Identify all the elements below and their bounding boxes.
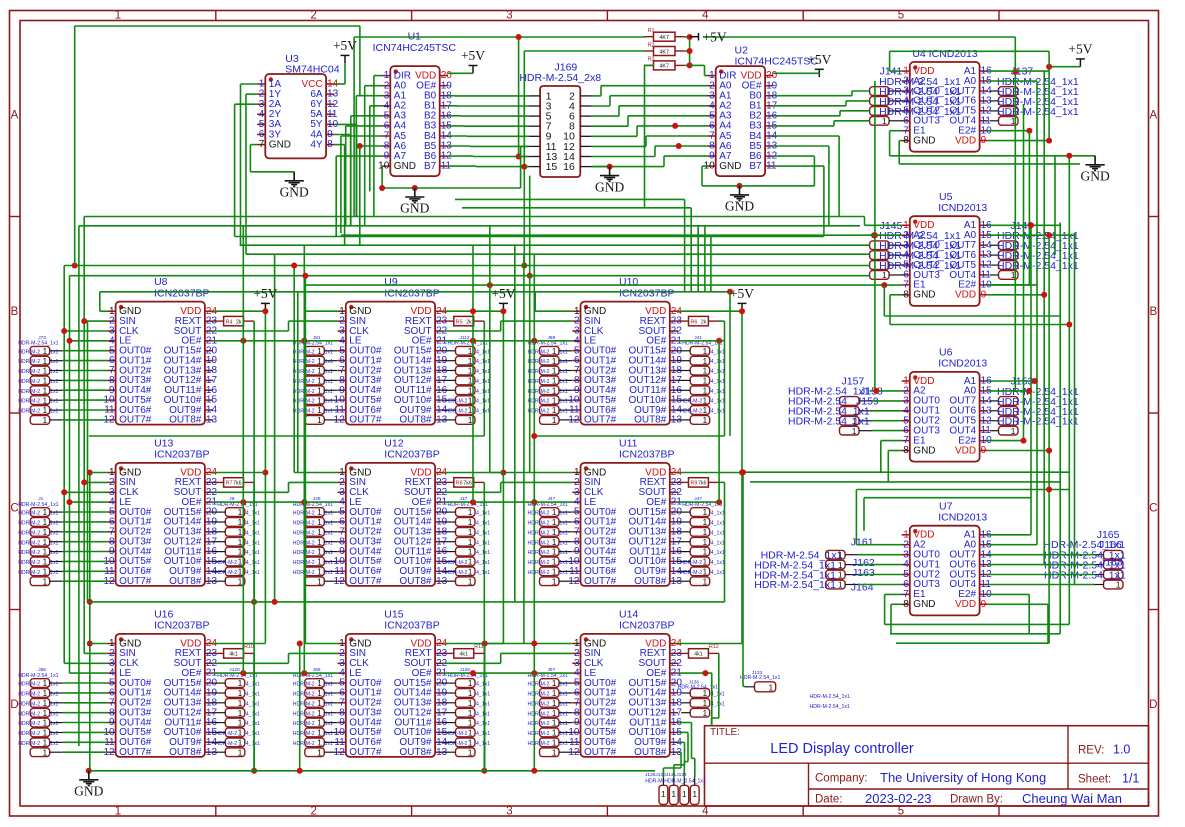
junction bbox=[881, 282, 887, 288]
junction bbox=[727, 289, 733, 295]
wire bbox=[743, 685, 745, 687]
wire bbox=[63, 419, 108, 421]
wire bbox=[455, 95, 529, 97]
junction bbox=[531, 433, 537, 439]
wire bbox=[662, 768, 664, 777]
svg-text:4_1x1: 4_1x1 bbox=[246, 560, 260, 566]
wire bbox=[855, 490, 857, 545]
junction bbox=[1026, 388, 1032, 394]
IC U3 SM74HC04 bbox=[257, 53, 340, 158]
wire bbox=[883, 285, 885, 316]
wire bbox=[818, 73, 820, 74]
wire bbox=[264, 311, 266, 643]
svg-text:2023-02-23: 2023-02-23 bbox=[865, 791, 932, 806]
wire bbox=[845, 101, 847, 106]
junction bbox=[262, 308, 268, 314]
svg-text:1: 1 bbox=[238, 738, 243, 748]
svg-text:1: 1 bbox=[702, 517, 707, 527]
junction bbox=[87, 641, 93, 647]
wire bbox=[90, 643, 108, 645]
wire bbox=[381, 166, 383, 188]
wire bbox=[890, 324, 1069, 326]
svg-text:+5V: +5V bbox=[491, 286, 515, 301]
svg-text:HDR-M-2: HDR-M-2 bbox=[18, 379, 40, 385]
wire bbox=[852, 90, 870, 92]
junction bbox=[716, 338, 722, 344]
svg-text:1: 1 bbox=[238, 708, 243, 718]
svg-text:_1x1: _1x1 bbox=[46, 369, 58, 375]
svg-text:HDR-M-2: HDR-M-2 bbox=[528, 379, 550, 385]
svg-text:1: 1 bbox=[702, 527, 707, 537]
svg-text:4_1x1: 4_1x1 bbox=[476, 521, 490, 527]
connectors J128.. (right of U15) bbox=[443, 667, 491, 757]
svg-text:1: 1 bbox=[317, 415, 322, 425]
svg-text:_1x1: _1x1 bbox=[46, 550, 58, 556]
wire bbox=[63, 682, 108, 684]
junction bbox=[531, 499, 537, 505]
wire bbox=[63, 409, 108, 411]
wire bbox=[988, 593, 1029, 595]
svg-text:1: 1 bbox=[238, 517, 243, 527]
svg-text:HDR-M-HDR-M_2.54_1x1: HDR-M-HDR-M_2.54_1x1 bbox=[645, 779, 706, 785]
wire bbox=[289, 652, 338, 654]
svg-text:9: 9 bbox=[981, 599, 987, 610]
wire bbox=[304, 284, 901, 286]
svg-text:HDR-M-2: HDR-M-2 bbox=[18, 399, 40, 405]
svg-text:4_1x1: 4_1x1 bbox=[246, 540, 260, 546]
wire bbox=[64, 265, 869, 267]
junction bbox=[739, 308, 745, 314]
wire bbox=[64, 330, 107, 332]
wires-done bbox=[0, 0, 1, 1]
connectors J81.. (left of U9) bbox=[293, 335, 338, 425]
resistor R8 7k6 bbox=[443, 478, 484, 487]
svg-text:2k: 2k bbox=[236, 319, 242, 325]
wire bbox=[448, 115, 461, 117]
svg-text:HDR-M-2: HDR-M-2 bbox=[528, 540, 550, 546]
wire bbox=[63, 580, 108, 582]
wire bbox=[250, 144, 257, 146]
wire bbox=[63, 389, 108, 391]
connectors J153-J156 (right of U6) bbox=[990, 376, 1079, 436]
svg-text:VDD: VDD bbox=[955, 599, 976, 610]
svg-text:1: 1 bbox=[468, 678, 473, 688]
IC U8 ICN2037BP bbox=[103, 276, 217, 426]
wire bbox=[711, 718, 713, 726]
power +5V bbox=[333, 38, 357, 63]
wire bbox=[636, 126, 638, 136]
svg-text:_1x1: _1x1 bbox=[46, 511, 58, 517]
wire bbox=[500, 482, 502, 492]
junction bbox=[672, 123, 678, 129]
svg-text:_1x1: _1x1 bbox=[46, 741, 58, 747]
svg-text:4_1x1: 4_1x1 bbox=[476, 721, 490, 727]
wire bbox=[858, 584, 902, 586]
junction bbox=[531, 641, 537, 647]
svg-text:4_1x1: 4_1x1 bbox=[711, 540, 725, 546]
svg-text:_1x1: _1x1 bbox=[556, 540, 568, 546]
svg-text:_1x1: _1x1 bbox=[321, 349, 333, 355]
connectors J9.. (right of U13) bbox=[212, 496, 260, 586]
svg-text:HDR-M-2: HDR-M-2 bbox=[293, 721, 315, 727]
resistor R4 2k bbox=[213, 316, 254, 325]
wire bbox=[592, 105, 610, 107]
svg-text:_1x1: _1x1 bbox=[46, 692, 58, 698]
svg-text:1: 1 bbox=[115, 10, 121, 22]
svg-text:HDR-M-2.54_1x1: HDR-M-2.54_1x1 bbox=[997, 106, 1079, 118]
wire bbox=[685, 50, 690, 52]
IC U12 ICN2037BP bbox=[334, 437, 448, 587]
junction bbox=[67, 338, 73, 344]
junction bbox=[470, 308, 476, 314]
svg-text:_1x1: _1x1 bbox=[556, 711, 568, 717]
svg-text:4_1x1: 4_1x1 bbox=[711, 511, 725, 517]
svg-text:_1x1: _1x1 bbox=[556, 741, 568, 747]
wire bbox=[294, 472, 337, 474]
svg-text:OUT7#: OUT7# bbox=[584, 747, 617, 758]
wire bbox=[678, 722, 692, 724]
svg-text:C: C bbox=[1149, 503, 1157, 515]
wire bbox=[718, 653, 720, 718]
wire bbox=[63, 360, 108, 362]
wire bbox=[524, 166, 528, 168]
wire bbox=[601, 85, 708, 87]
connectors J73.. (left of U8) bbox=[18, 335, 63, 425]
svg-text:R9: R9 bbox=[691, 481, 698, 487]
svg-text:HDR-M-2: HDR-M-2 bbox=[18, 560, 40, 566]
wire bbox=[341, 234, 902, 236]
svg-text:4_1x1: 4_1x1 bbox=[246, 550, 260, 556]
junction bbox=[716, 499, 722, 505]
wire bbox=[678, 472, 742, 474]
wire bbox=[245, 94, 247, 254]
wire bbox=[63, 370, 108, 372]
svg-text:13: 13 bbox=[206, 415, 218, 426]
wire bbox=[502, 311, 504, 643]
wire bbox=[592, 125, 628, 127]
svg-text:R2: R2 bbox=[648, 42, 655, 48]
svg-text:4_1x1: 4_1x1 bbox=[246, 692, 260, 698]
svg-text:1: 1 bbox=[115, 806, 121, 818]
svg-text:HDR-M-2: HDR-M-2 bbox=[18, 731, 40, 737]
wire bbox=[448, 72, 473, 74]
svg-text:HDR-M-2: HDR-M-2 bbox=[446, 399, 468, 405]
svg-text:7k6: 7k6 bbox=[463, 481, 472, 487]
wire bbox=[742, 472, 744, 686]
svg-text:HDR-M-2: HDR-M-2 bbox=[528, 511, 550, 517]
svg-text:_1x1: _1x1 bbox=[556, 560, 568, 566]
junction bbox=[379, 185, 385, 191]
junction bbox=[687, 62, 693, 68]
wire bbox=[240, 244, 870, 246]
svg-text:_1x1: _1x1 bbox=[321, 560, 333, 566]
wire bbox=[740, 185, 815, 187]
wire bbox=[684, 761, 688, 763]
connectors J165-J168 (right of U7) bbox=[1043, 529, 1125, 590]
junction bbox=[240, 499, 246, 505]
wire bbox=[443, 643, 503, 645]
wire bbox=[250, 171, 294, 173]
svg-text:1: 1 bbox=[317, 747, 322, 757]
wire bbox=[833, 121, 835, 126]
svg-text:7k6: 7k6 bbox=[698, 481, 707, 487]
junction bbox=[251, 599, 257, 605]
svg-text:4_1x1: 4_1x1 bbox=[711, 701, 725, 707]
wire bbox=[645, 136, 647, 146]
wire bbox=[448, 145, 470, 147]
svg-text:HDR-M-2: HDR-M-2 bbox=[528, 692, 550, 698]
connectors J157-J160 (left of U6) bbox=[788, 376, 883, 436]
svg-text:HDR-M-2.54_1x1: HDR-M-2.54_1x1 bbox=[879, 260, 961, 272]
junction bbox=[1026, 128, 1032, 134]
connectors J47.. (right of U11) bbox=[677, 496, 725, 586]
junction bbox=[86, 768, 92, 774]
svg-text:HDR-M-2.54_1x1: HDR-M-2.54_1x1 bbox=[810, 694, 850, 700]
wire bbox=[64, 662, 107, 664]
wire bbox=[1048, 235, 1050, 643]
wire bbox=[448, 95, 455, 97]
connectors J112.. (right of U9) bbox=[443, 335, 491, 425]
svg-text:HDR-M-2: HDR-M-2 bbox=[680, 399, 702, 405]
wire bbox=[988, 234, 1075, 236]
wire bbox=[889, 131, 891, 156]
svg-text:HDR-M-2: HDR-M-2 bbox=[293, 692, 315, 698]
wire bbox=[851, 91, 853, 96]
svg-text:OUT7#: OUT7# bbox=[119, 576, 152, 587]
svg-text:+5V: +5V bbox=[1068, 42, 1092, 57]
wire bbox=[356, 124, 358, 216]
wire bbox=[988, 450, 1049, 452]
wire bbox=[63, 350, 108, 352]
svg-text:J163: J163 bbox=[852, 567, 875, 579]
svg-text:GND: GND bbox=[400, 201, 429, 216]
svg-text:1: 1 bbox=[468, 728, 473, 738]
wire bbox=[304, 276, 306, 644]
wire bbox=[74, 26, 76, 266]
connectors J145-J148 (left of U5) bbox=[870, 220, 961, 280]
wire bbox=[523, 51, 525, 167]
svg-text:1: 1 bbox=[468, 356, 473, 366]
svg-text:R4: R4 bbox=[226, 319, 233, 325]
svg-text:4_1x1: 4_1x1 bbox=[476, 540, 490, 546]
junction bbox=[412, 185, 418, 191]
svg-text:R3: R3 bbox=[648, 57, 655, 63]
junction bbox=[61, 489, 67, 495]
wire bbox=[69, 276, 71, 673]
wire bbox=[724, 321, 726, 436]
svg-text:1: 1 bbox=[468, 507, 473, 517]
junction bbox=[1046, 64, 1052, 70]
svg-text:HDR-M-2: HDR-M-2 bbox=[528, 409, 550, 415]
svg-text:4K7: 4K7 bbox=[659, 64, 668, 70]
wire bbox=[719, 320, 725, 322]
wire bbox=[872, 400, 902, 402]
junction bbox=[470, 670, 476, 676]
IC U2 ICN74HC245TSC bbox=[704, 45, 819, 177]
wire bbox=[490, 472, 573, 474]
svg-text:1: 1 bbox=[702, 537, 707, 547]
svg-text:_1x1: _1x1 bbox=[556, 399, 568, 405]
svg-text:_1x1: _1x1 bbox=[321, 399, 333, 405]
wire bbox=[89, 473, 91, 771]
ground bbox=[74, 771, 103, 799]
wire bbox=[443, 340, 572, 342]
wire bbox=[1048, 67, 1050, 141]
wire bbox=[374, 75, 382, 77]
wire bbox=[840, 110, 870, 112]
svg-text:1: 1 bbox=[238, 537, 243, 547]
wire bbox=[898, 141, 900, 164]
wire bbox=[988, 224, 1060, 226]
svg-text:U4 ICND2013: U4 ICND2013 bbox=[912, 48, 978, 60]
wire bbox=[858, 574, 902, 576]
svg-text:1: 1 bbox=[468, 747, 473, 757]
wire bbox=[483, 482, 485, 770]
svg-text:1: 1 bbox=[468, 708, 473, 718]
svg-text:4_1x1: 4_1x1 bbox=[711, 349, 725, 355]
svg-text:4_1x1: 4_1x1 bbox=[476, 570, 490, 576]
power +5V bbox=[807, 52, 831, 77]
wire bbox=[87, 321, 89, 602]
wire bbox=[524, 50, 644, 52]
svg-text:1: 1 bbox=[238, 747, 243, 757]
svg-text:HDR-M-2: HDR-M-2 bbox=[18, 521, 40, 527]
junction bbox=[531, 670, 537, 676]
svg-text:_1x1: _1x1 bbox=[321, 741, 333, 747]
wire bbox=[858, 554, 902, 556]
svg-text:ICND2013: ICND2013 bbox=[938, 202, 987, 214]
wire bbox=[520, 146, 522, 188]
svg-text:_1x1: _1x1 bbox=[321, 550, 333, 556]
svg-text:1: 1 bbox=[838, 570, 843, 580]
wire bbox=[663, 767, 681, 769]
wire bbox=[288, 482, 290, 492]
wire bbox=[678, 340, 725, 342]
wire bbox=[84, 216, 864, 218]
svg-text:_1x1: _1x1 bbox=[46, 530, 58, 536]
svg-text:B7: B7 bbox=[424, 161, 437, 172]
svg-text:U10: U10 bbox=[619, 276, 638, 288]
IC U4 ICND2013 bbox=[902, 48, 993, 152]
svg-text:1: 1 bbox=[238, 507, 243, 517]
svg-text:HDR-M-2: HDR-M-2 bbox=[446, 741, 468, 747]
wire bbox=[84, 320, 107, 322]
junction bbox=[1066, 322, 1072, 328]
resistor R6 2k bbox=[678, 316, 719, 325]
svg-text:1: 1 bbox=[238, 527, 243, 537]
svg-text:10: 10 bbox=[378, 161, 390, 172]
wire bbox=[63, 751, 108, 753]
svg-text:HDR-M-2.54_1x1: HDR-M-2.54_1x1 bbox=[1044, 570, 1126, 582]
svg-text:1: 1 bbox=[238, 557, 243, 567]
svg-text:HDR-M-2: HDR-M-2 bbox=[528, 550, 550, 556]
label HDR texts bbox=[810, 694, 850, 710]
svg-text:U14: U14 bbox=[619, 608, 638, 620]
svg-text:The University of Hong Kong: The University of Hong Kong bbox=[880, 770, 1046, 785]
wire bbox=[864, 217, 866, 226]
wire bbox=[828, 146, 830, 226]
svg-text:HDR-M-2: HDR-M-2 bbox=[18, 511, 40, 517]
wire bbox=[500, 653, 502, 663]
svg-text:_1x1: _1x1 bbox=[321, 409, 333, 415]
connectors J66.. (left of U15) bbox=[293, 667, 338, 757]
svg-text:HDR-M-2: HDR-M-2 bbox=[446, 560, 468, 566]
wire bbox=[1023, 104, 1025, 441]
wire bbox=[1049, 66, 1080, 68]
wire bbox=[863, 498, 865, 531]
wire bbox=[63, 741, 108, 743]
wire bbox=[341, 135, 382, 137]
junction bbox=[1066, 153, 1072, 159]
svg-text:GND: GND bbox=[74, 784, 103, 799]
svg-text:15: 15 bbox=[546, 161, 558, 173]
wire bbox=[838, 136, 840, 217]
junction bbox=[871, 232, 877, 238]
svg-text:HDR-M-2: HDR-M-2 bbox=[18, 389, 40, 395]
wire bbox=[501, 481, 573, 483]
wire bbox=[340, 136, 342, 233]
svg-text:SM74HC04: SM74HC04 bbox=[285, 64, 339, 76]
svg-text:1: 1 bbox=[468, 698, 473, 708]
svg-text:HDR-M-2: HDR-M-2 bbox=[528, 741, 550, 747]
svg-text:HDR-M-2.54_1x1: HDR-M-2.54_1x1 bbox=[997, 416, 1079, 428]
svg-text:4_1x1: 4_1x1 bbox=[711, 550, 725, 556]
wire bbox=[610, 95, 708, 97]
svg-text:OUT8#: OUT8# bbox=[634, 415, 667, 426]
svg-text:B7: B7 bbox=[749, 161, 762, 172]
svg-text:8: 8 bbox=[903, 289, 909, 300]
svg-text:4_1x1: 4_1x1 bbox=[476, 701, 490, 707]
wire bbox=[75, 25, 360, 27]
svg-text:9: 9 bbox=[981, 445, 987, 456]
svg-text:4_1x1: 4_1x1 bbox=[711, 409, 725, 415]
svg-text:4_1x1: 4_1x1 bbox=[711, 389, 725, 395]
wire bbox=[988, 390, 1029, 392]
connectors J141-J144 (left of U4) bbox=[870, 66, 961, 126]
svg-text:R1: R1 bbox=[648, 28, 655, 34]
wire bbox=[78, 226, 80, 746]
wire bbox=[839, 111, 841, 116]
svg-text:HDR-M-2: HDR-M-2 bbox=[680, 560, 702, 566]
wire bbox=[443, 310, 503, 312]
wire bbox=[213, 672, 338, 674]
wire bbox=[63, 531, 108, 533]
junction bbox=[61, 328, 67, 334]
wire bbox=[870, 234, 902, 236]
wire bbox=[334, 134, 350, 136]
junction bbox=[1032, 378, 1038, 384]
svg-text:3: 3 bbox=[506, 806, 512, 818]
svg-text:_1x1: _1x1 bbox=[46, 349, 58, 355]
wire bbox=[856, 544, 901, 546]
svg-text:D: D bbox=[1149, 699, 1157, 711]
wire bbox=[678, 731, 688, 733]
svg-text:_1x1: _1x1 bbox=[46, 711, 58, 717]
wire bbox=[344, 145, 346, 246]
svg-text:R12: R12 bbox=[709, 644, 719, 650]
connectors J149-J152 (right of U5) bbox=[990, 220, 1079, 280]
wire bbox=[63, 731, 108, 733]
wire bbox=[288, 653, 290, 663]
junction bbox=[81, 318, 87, 324]
wire bbox=[443, 662, 500, 664]
svg-text:1: 1 bbox=[702, 576, 707, 586]
svg-text:HDR-M-2.54_1x1: HDR-M-2.54_1x1 bbox=[18, 673, 58, 679]
junction bbox=[521, 263, 527, 269]
svg-text:ICND2013: ICND2013 bbox=[938, 358, 987, 370]
svg-text:4_1x1: 4_1x1 bbox=[711, 570, 725, 576]
IC U5 ICND2013 bbox=[902, 191, 993, 306]
